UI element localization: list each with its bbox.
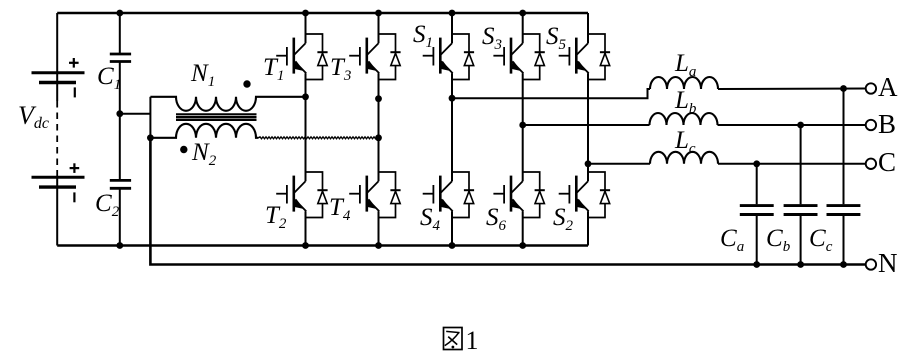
leg 2 wire (T3/T4) xyxy=(378,13,380,246)
svg-text:C: C xyxy=(878,147,896,177)
terminal N xyxy=(866,259,876,269)
capacitor Ca xyxy=(740,206,774,215)
node top rail / leg2 xyxy=(375,10,382,17)
battery branch wire xyxy=(56,13,58,101)
node Cc bottom xyxy=(840,261,847,268)
svg-text:Cb: Cb xyxy=(766,225,791,255)
node Ca top xyxy=(753,160,760,167)
svg-text:N: N xyxy=(878,248,898,278)
node leg2 dotted junction xyxy=(375,134,382,141)
svg-text:S5: S5 xyxy=(546,23,567,53)
capacitor C2 xyxy=(110,180,131,188)
node bottom rail / leg1 xyxy=(302,242,309,249)
node Ca bottom xyxy=(753,261,760,268)
node top rail / C branch xyxy=(116,10,123,17)
svg-text:N2: N2 xyxy=(191,139,217,169)
leg 1 wire (T1/T2) xyxy=(305,13,307,246)
battery B1 minus tick xyxy=(74,87,76,97)
inductor La xyxy=(650,77,718,89)
IGBT S5 xyxy=(559,34,610,80)
wire phase A to terminal xyxy=(718,88,866,91)
terminal B xyxy=(866,120,876,130)
wire neutral line N xyxy=(150,138,865,265)
svg-text:Lc: Lc xyxy=(674,127,696,157)
node leg2 upper xyxy=(375,95,382,102)
node leg5 phase C xyxy=(585,160,592,167)
node Cb bottom xyxy=(797,261,804,268)
capacitor Cc xyxy=(827,206,861,215)
wire phase B from leg S3/S6 xyxy=(523,124,650,126)
wire phase B to terminal xyxy=(718,124,866,126)
svg-text:A: A xyxy=(878,72,898,102)
svg-text:T2: T2 xyxy=(265,202,287,232)
inductor Lb xyxy=(650,113,718,125)
wire phase C to terminal xyxy=(718,163,866,165)
polarity dot N2 xyxy=(180,146,187,153)
battery B2 minus tick xyxy=(73,192,75,202)
svg-text:S2: S2 xyxy=(553,204,574,234)
wire phase A from leg S1/S4 xyxy=(452,89,650,98)
svg-text:Vdc: Vdc xyxy=(18,101,49,132)
battery B2 xyxy=(32,177,85,187)
IGBT T1 xyxy=(276,34,327,80)
svg-text:N1: N1 xyxy=(190,60,215,90)
transformer winding N1 xyxy=(150,97,305,111)
battery B1 plus sign xyxy=(69,58,79,68)
svg-text:1: 1 xyxy=(466,326,479,354)
svg-text:T1: T1 xyxy=(263,54,284,84)
IGBT T3 xyxy=(349,34,400,80)
node leg4 phase B xyxy=(519,122,526,129)
svg-text:S4: S4 xyxy=(420,204,441,234)
node N2 left junction xyxy=(147,134,154,141)
svg-text:C1: C1 xyxy=(97,63,121,93)
svg-text:S1: S1 xyxy=(413,21,433,51)
transformer winding N2 xyxy=(150,124,258,138)
terminal C xyxy=(866,159,876,169)
IGBT S3 xyxy=(493,34,544,80)
svg-text:Lb: Lb xyxy=(674,87,697,117)
inductor Lc xyxy=(650,152,718,164)
capacitor Cc branch wire xyxy=(843,89,845,265)
IGBT S6 xyxy=(493,172,544,218)
svg-text:T3: T3 xyxy=(330,54,351,84)
node leg3 phase A xyxy=(449,95,456,102)
battery B2 plus sign xyxy=(70,163,80,173)
terminal A xyxy=(866,83,876,93)
dotted wire N2 to leg T3/T4 xyxy=(259,137,379,139)
node C1-C2 midpoint xyxy=(116,110,123,117)
svg-text:T4: T4 xyxy=(329,194,351,224)
IGBT S1 xyxy=(423,34,474,80)
svg-text:S3: S3 xyxy=(482,23,502,53)
svg-text:B: B xyxy=(878,109,896,139)
caption 图1 xyxy=(444,326,479,354)
leg 4 wire (S3/S6) xyxy=(522,13,524,246)
polarity dot N1 xyxy=(243,80,250,87)
IGBT T2 xyxy=(276,172,327,218)
leg 3 wire (S1/S4) xyxy=(451,13,453,246)
svg-text:Cc: Cc xyxy=(809,225,833,255)
wire bottom DC rail xyxy=(57,244,588,247)
wire C-midpoint to transformer xyxy=(120,113,151,115)
capacitor C1 branch wire xyxy=(119,13,121,246)
node top rail / leg4 xyxy=(519,10,526,17)
node Cc top xyxy=(840,85,847,92)
svg-text:Ca: Ca xyxy=(720,225,744,255)
node bottom rail / C branch xyxy=(116,242,123,249)
capacitor Cb branch wire xyxy=(800,125,802,265)
node bottom rail / leg4 xyxy=(519,242,526,249)
node bottom rail / leg3 xyxy=(449,242,456,249)
wire phase C from leg S5/S2 xyxy=(588,163,650,165)
capacitor Ca branch wire xyxy=(756,164,758,265)
wire below battery 2 xyxy=(56,177,58,246)
battery B1 xyxy=(32,73,85,83)
IGBT T4 xyxy=(349,172,400,218)
leg 5 wire (S5/S2) xyxy=(587,13,589,246)
capacitor Cb xyxy=(784,206,818,215)
svg-text:S6: S6 xyxy=(486,204,507,234)
node bottom rail / leg2 xyxy=(375,242,382,249)
capacitor C1 xyxy=(110,54,131,62)
battery dashed wire xyxy=(56,101,58,177)
node leg1 midpoint xyxy=(302,93,309,100)
node top rail / leg1 xyxy=(302,10,309,17)
node Cb top xyxy=(797,122,804,129)
wire top DC rail xyxy=(57,12,588,15)
IGBT S2 xyxy=(559,172,610,218)
svg-text:La: La xyxy=(674,50,696,80)
transformer core xyxy=(176,114,257,120)
IGBT S4 xyxy=(423,172,474,218)
svg-text:C2: C2 xyxy=(95,190,120,220)
node top rail / leg3 xyxy=(449,10,456,17)
wire transformer left vertical xyxy=(149,97,151,138)
